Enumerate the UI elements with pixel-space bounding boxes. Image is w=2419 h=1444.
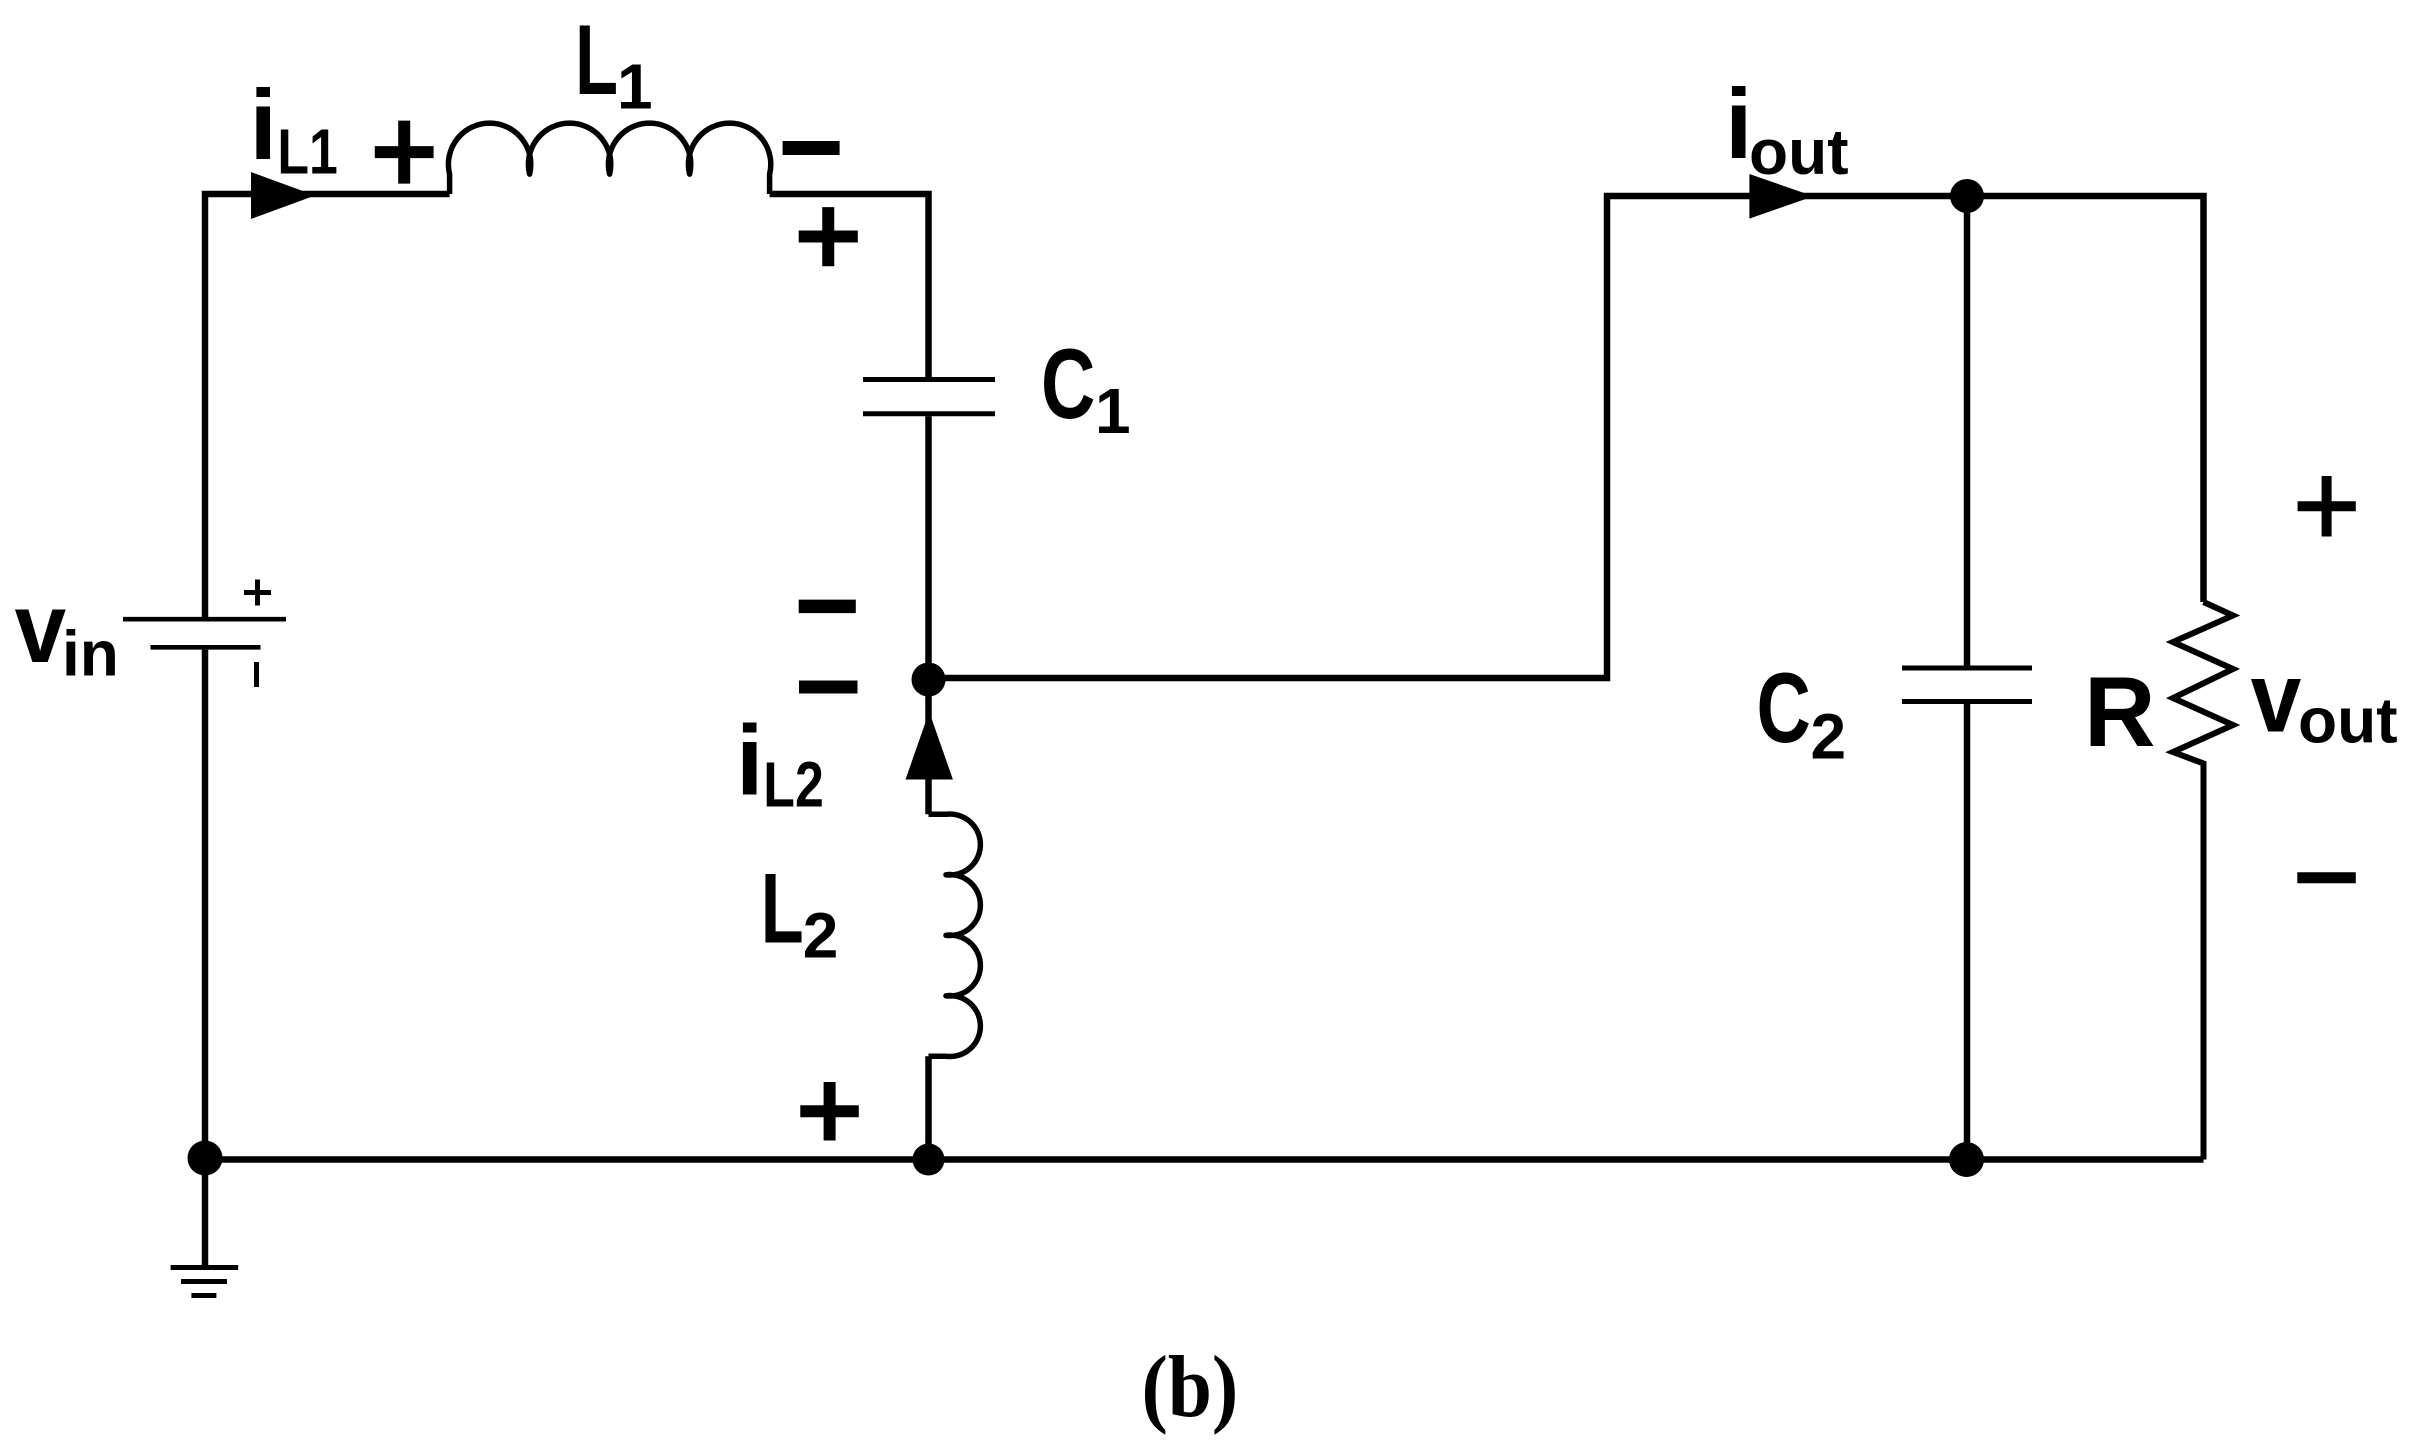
svg-text:L: L	[761, 854, 804, 965]
svg-text:2: 2	[1811, 701, 1847, 773]
svg-text:i: i	[250, 69, 278, 180]
svg-text:(b): (b)	[1142, 1338, 1239, 1436]
svg-text:L2: L2	[763, 749, 823, 820]
svg-text:out: out	[1749, 116, 1849, 188]
svg-text:in: in	[62, 618, 119, 690]
svg-text:L: L	[575, 5, 618, 116]
svg-text:1: 1	[617, 50, 653, 122]
svg-text:v: v	[2251, 643, 2302, 753]
svg-text:out: out	[2298, 685, 2398, 757]
svg-text:i: i	[736, 705, 764, 816]
svg-text:1: 1	[1095, 375, 1131, 447]
svg-text:v: v	[15, 573, 66, 684]
svg-text:L1: L1	[277, 116, 337, 187]
svg-text:C: C	[1757, 652, 1811, 763]
svg-text:R: R	[2084, 656, 2156, 767]
svg-text:C: C	[1041, 328, 1095, 439]
svg-text:2: 2	[803, 900, 839, 972]
